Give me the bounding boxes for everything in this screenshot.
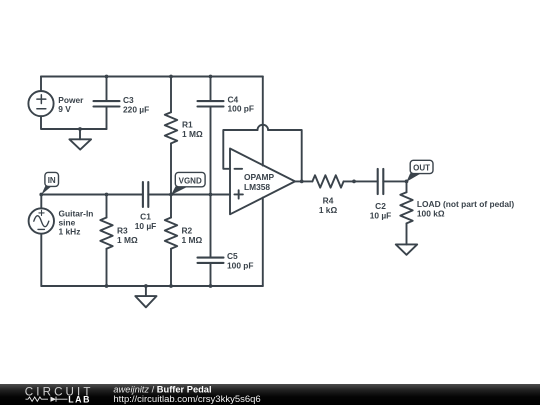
svg-text:http://circuitlab.com/crsy3kky: http://circuitlab.com/crsy3kky5s6q6 — [113, 394, 260, 405]
svg-text:220 µF: 220 µF — [123, 105, 149, 115]
resistor R2 — [165, 195, 177, 287]
wire signal rail left — [41, 194, 143, 196]
wire feedback loop — [268, 130, 302, 181]
svg-text:1 MΩ: 1 MΩ — [182, 129, 203, 139]
capacitor C1 — [143, 182, 148, 207]
resistor R1 — [165, 77, 177, 195]
wire guitar source top stub — [40, 195, 42, 209]
svg-text:C5: C5 — [227, 251, 238, 261]
svg-text:1 MΩ: 1 MΩ — [182, 235, 203, 245]
source Guitar-In — [29, 208, 54, 233]
ground (load) — [396, 244, 417, 254]
wire power source bottom stub — [41, 116, 107, 129]
svg-text:LAB: LAB — [68, 394, 91, 404]
ground (power) — [69, 129, 91, 150]
wire opamp V+ pin — [262, 77, 264, 166]
wire power source top stub — [40, 77, 42, 92]
svg-text:1 kHz: 1 kHz — [59, 227, 81, 237]
wire top rail — [41, 76, 263, 78]
svg-text:OUT: OUT — [413, 163, 430, 172]
wire opamp output — [295, 180, 312, 182]
svg-text:100 pF: 100 pF — [228, 104, 255, 114]
capacitor C3 — [94, 77, 120, 130]
node IN flag — [41, 172, 58, 194]
svg-text:C1: C1 — [140, 212, 151, 222]
resistor R3 — [100, 195, 112, 287]
svg-text:LM358: LM358 — [244, 182, 270, 192]
power source V1 — [28, 91, 53, 116]
wire guitar source bottom stub — [40, 234, 42, 286]
svg-text:1 MΩ: 1 MΩ — [117, 235, 138, 245]
op-amp U1 LM358 — [230, 149, 295, 215]
svg-text:IN: IN — [48, 176, 56, 185]
wire signal rail right — [148, 194, 230, 196]
capacitor C2 — [378, 169, 384, 194]
svg-text:aweijnitz / Buffer Pedal: aweijnitz / Buffer Pedal — [113, 385, 211, 395]
svg-text:9 V: 9 V — [58, 104, 71, 114]
node OUT flag — [407, 160, 434, 182]
svg-text:1 kΩ: 1 kΩ — [319, 205, 338, 215]
wire feedback hop arc — [258, 125, 269, 130]
footer bar — [0, 384, 540, 405]
svg-text:VGND: VGND — [179, 176, 202, 185]
capacitor C4 — [198, 77, 224, 195]
wire bottom rail — [41, 285, 262, 287]
wire R4 to C2 — [344, 180, 378, 182]
wire C2 to OUT — [383, 180, 406, 182]
footer logo squiggle — [26, 397, 68, 402]
svg-text:LOAD (not part of pedal): LOAD (not part of pedal) — [417, 199, 514, 209]
svg-text:100 pF: 100 pF — [227, 260, 254, 270]
capacitor C5 — [198, 195, 224, 287]
svg-text:10 µF: 10 µF — [135, 221, 157, 231]
svg-text:100 kΩ: 100 kΩ — [417, 208, 445, 218]
resistor LOAD — [400, 181, 412, 244]
ground (mid) — [135, 286, 156, 307]
wire opamp V- pin — [262, 198, 264, 286]
node VGND flag — [171, 172, 205, 195]
resistor R4 — [312, 175, 343, 187]
svg-text:OPAMP: OPAMP — [244, 172, 275, 182]
wire feedback left — [223, 130, 257, 169]
svg-text:10 µF: 10 µF — [370, 210, 392, 220]
